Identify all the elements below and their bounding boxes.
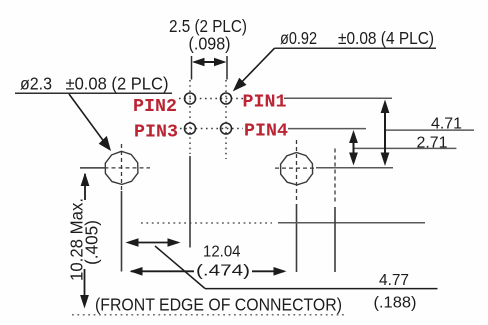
left hole centerline solid below xyxy=(121,191,123,272)
10.28 dimension line lower segment xyxy=(84,269,86,305)
vertical reference line x335 dotted part xyxy=(334,149,336,205)
10.28 dimension line upper segment xyxy=(84,174,86,200)
svg-text:(.474): (.474) xyxy=(196,263,250,280)
right hole crosshair horizontal dashed xyxy=(275,167,316,169)
svg-text:PIN4: PIN4 xyxy=(244,121,288,141)
svg-text:(.405): (.405) xyxy=(82,220,102,265)
dotted front edge line xyxy=(72,314,347,316)
long dotted horizontal reference line xyxy=(141,222,272,224)
short horizontal double arrow (hole to pin column) xyxy=(126,238,181,247)
pin hole circle bottom-left xyxy=(185,123,196,134)
10.28 down arrowhead xyxy=(80,295,89,309)
svg-text:(.098): (.098) xyxy=(189,34,231,54)
svg-text:ø2.3: ø2.3 xyxy=(20,74,52,94)
pin hole circle top-left xyxy=(185,93,196,104)
right hole vertical dotted centerline xyxy=(296,140,298,203)
svg-text:(.188): (.188) xyxy=(374,295,417,312)
svg-text:12.04: 12.04 xyxy=(203,244,241,261)
gray line from PIN4 xyxy=(288,128,366,130)
gray solid horizontal reference line xyxy=(278,222,425,224)
leader line from ø2.3 to left hole xyxy=(69,94,105,143)
leader line from ø0.92 to pin xyxy=(235,48,275,89)
leader slant from short arrow to front edge xyxy=(155,246,205,289)
4.71 vertical dimension double arrow xyxy=(381,100,390,167)
underline of ø0.92 label xyxy=(275,47,437,49)
gray line from PIN1 xyxy=(284,97,392,99)
right hole crosshair solid extension xyxy=(316,167,393,169)
long horizontal dimension arrow 12.04 left part xyxy=(130,267,195,276)
10.28 up arrowhead xyxy=(81,173,90,187)
pin hole circle top-right xyxy=(221,93,232,104)
svg-text:±0.08 (2 PLC): ±0.08 (2 PLC) xyxy=(66,74,169,94)
left hole crosshair horizontal solid extension xyxy=(80,167,105,169)
right mounting hole decagon xyxy=(281,153,313,185)
dotted centerline pin row 1 xyxy=(179,98,243,100)
svg-text:PIN2: PIN2 xyxy=(133,97,177,117)
pin hole circle bottom-right xyxy=(221,123,232,134)
2.5 dimension double arrow xyxy=(192,58,227,66)
front edge horizontal indicator line xyxy=(205,288,438,290)
extension line right of 2.5 dim xyxy=(226,56,228,80)
svg-text:PIN1: PIN1 xyxy=(243,92,287,112)
svg-text:PIN3: PIN3 xyxy=(134,123,178,143)
dotted centerline pin column 1 xyxy=(189,80,191,154)
2.71 label line xyxy=(354,147,457,149)
extension line left of 2.5 dim xyxy=(191,56,193,80)
leader arrowhead at top-right pin xyxy=(233,78,247,92)
left hole vertical dotted centerline xyxy=(121,144,123,190)
left hole crosshair horizontal dashed xyxy=(105,167,151,169)
2.71 vertical dimension double arrow xyxy=(349,130,358,166)
svg-text:±0.08 (4 PLC): ±0.08 (4 PLC) xyxy=(338,28,434,48)
svg-text:(FRONT EDGE OF CONNECTOR): (FRONT EDGE OF CONNECTOR) xyxy=(95,295,342,315)
left mounting hole decagon xyxy=(105,151,138,184)
4.71 label line xyxy=(384,129,474,131)
long horizontal dimension arrow 12.04 right part xyxy=(252,267,287,276)
underline of ø2.3 label xyxy=(15,92,172,94)
svg-text:4.77: 4.77 xyxy=(379,272,409,289)
leader arrowhead at left hole xyxy=(99,136,111,151)
right hole centerline solid below xyxy=(296,204,298,272)
dotted centerline pin column 2 xyxy=(225,80,227,159)
vertical reference line x335 solid part xyxy=(334,207,336,272)
svg-text:ø0.92: ø0.92 xyxy=(280,28,317,48)
dotted centerline pin row 2 xyxy=(180,128,243,130)
pin column 1 solid extension line below xyxy=(189,156,191,248)
